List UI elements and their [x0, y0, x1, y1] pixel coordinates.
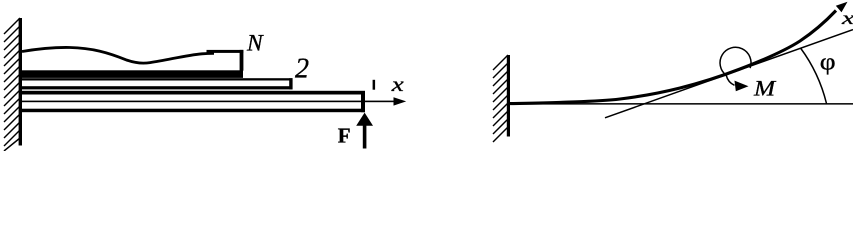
wall line (right): [507, 55, 510, 137]
force F arrowhead: [356, 113, 373, 126]
plate 1 right edge: [361, 91, 365, 112]
moment M circular arrow: [720, 47, 751, 85]
svg-text:x: x: [841, 8, 853, 28]
svg-text:F: F: [338, 123, 351, 147]
tangent line: [605, 30, 853, 118]
svg-text:x: x: [391, 74, 405, 96]
rod end arrowhead: [836, 2, 848, 12]
plate N right edge: [240, 50, 244, 71]
bent rod curve: [510, 11, 836, 104]
baseline (undeflected axis): [510, 103, 853, 105]
x axis line through plate 1: [22, 101, 396, 103]
plate 1 bottom edge: [22, 109, 365, 113]
plate 2 top edge: [22, 78, 293, 80]
plate N top-right straight edge: [207, 50, 244, 53]
svg-text:2: 2: [295, 54, 309, 85]
svg-text:M: M: [753, 77, 776, 101]
black band (plates 3..N-1): [22, 70, 243, 78]
svg-text:N: N: [246, 31, 264, 57]
phi angle arc: [801, 48, 827, 104]
wall hatching (left): [4, 18, 20, 151]
plate N wavy top sheet: [22, 47, 214, 63]
label l: [373, 80, 376, 90]
plate 1 top edge: [22, 91, 365, 95]
plate 2 right edge: [289, 78, 292, 89]
svg-text:φ: φ: [820, 48, 836, 75]
moment M arrowhead: [735, 81, 749, 92]
x axis arrowhead: [394, 97, 407, 105]
wall hatching (right): [493, 55, 508, 142]
force F arrow shaft: [363, 125, 367, 149]
plate 2 bottom edge: [22, 86, 293, 89]
wall line (left): [19, 18, 22, 146]
